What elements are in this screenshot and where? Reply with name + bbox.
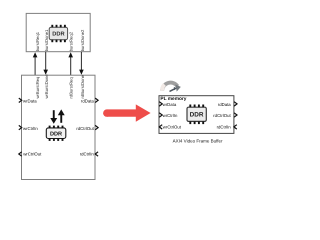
svg-text:rdCtrlIn: rdCtrlIn — [217, 125, 232, 130]
svg-text:DDR: DDR — [52, 32, 64, 38]
svg-text:wrData: wrData — [163, 102, 177, 107]
port rdCtrlOut (output, right) — [76, 125, 98, 130]
svg-text:wrCtrlIn: wrCtrlIn — [163, 113, 178, 118]
block U1 memory controller (top-left) — [26, 13, 90, 51]
svg-text:wrCtrlOut: wrCtrlOut — [23, 152, 42, 157]
port rdCtrlOut U3 (output, right) — [213, 113, 237, 118]
svg-text:rdCtrlOut: rdCtrlOut — [76, 126, 94, 131]
port wrCtrlIn (input, left) — [19, 125, 39, 130]
svg-text:rdCtrlIn: rdCtrlIn — [80, 152, 95, 157]
DDR chip icon in controller — [49, 25, 67, 42]
port rdData U3 (output, right) — [218, 102, 237, 107]
svg-text:wrData: wrData — [23, 99, 37, 104]
svg-text:rdBurstDone: rdBurstDone — [80, 74, 85, 98]
port wrCtrlIn U3 (input, left) — [159, 113, 178, 118]
gauge icon above PL memory block — [162, 83, 181, 93]
svg-text:AXI4 Video Frame Buffer: AXI4 Video Frame Buffer — [173, 138, 223, 143]
svg-text:rdCtrlOut: rdCtrlOut — [213, 113, 231, 118]
svg-text:burstReq2: burstReq2 — [69, 31, 74, 51]
wire burstDone1 (down arrow) — [43, 52, 48, 75]
port wrCtrlOut U3 (output, left) — [159, 125, 181, 130]
svg-text:rdData: rdData — [81, 99, 95, 104]
wire burstReq1 (up arrow) — [33, 52, 38, 75]
port rdData (output, right) — [81, 98, 98, 103]
red arrow — [103, 104, 151, 121]
wire burstReq2 (up arrow) — [68, 52, 73, 75]
svg-text:burstReq1: burstReq1 — [35, 31, 40, 51]
svg-text:burstDone2: burstDone2 — [80, 29, 85, 51]
svg-text:wrBurstDone: wrBurstDone — [44, 74, 49, 99]
svg-text:rdBurstReq: rdBurstReq — [69, 77, 74, 99]
port rdCtrlIn U3 (input, right) — [217, 125, 237, 130]
DDR chip icon in U3 — [187, 105, 206, 125]
svg-text:rdData: rdData — [218, 102, 232, 107]
svg-text:wrCtrlIn: wrCtrlIn — [23, 126, 38, 131]
svg-text:DDR: DDR — [50, 132, 62, 138]
DDR chip icon in U2 — [46, 126, 66, 141]
port wrData U3 (input, left) — [159, 102, 177, 107]
block U3 PL memory / AXI4 Video Frame Buffer — [159, 96, 234, 134]
icon transfer arrows in U2 — [50, 109, 64, 123]
block U2 frame buffer (lower-left) — [22, 75, 96, 179]
wire burstDone2 (down arrow) — [79, 52, 84, 75]
port wrData (input, left) — [19, 98, 37, 103]
svg-text:burstDone1: burstDone1 — [44, 29, 49, 51]
port wrCtrlOut (output, left) — [19, 152, 42, 157]
svg-text:wrCtrlOut: wrCtrlOut — [163, 125, 182, 130]
port rdCtrlIn (input, right) — [80, 152, 98, 157]
svg-text:DDR: DDR — [190, 112, 204, 119]
svg-text:wrBurstReq: wrBurstReq — [35, 76, 40, 99]
